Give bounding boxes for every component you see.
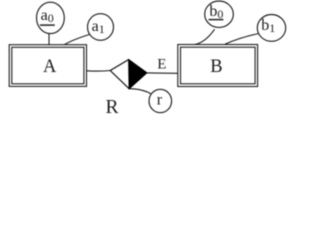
svg-text:B: B [210,57,222,77]
svg-text:A: A [43,57,57,77]
svg-text:r: r [157,91,163,108]
svg-text:R: R [106,97,119,117]
svg-text:E: E [157,57,166,73]
